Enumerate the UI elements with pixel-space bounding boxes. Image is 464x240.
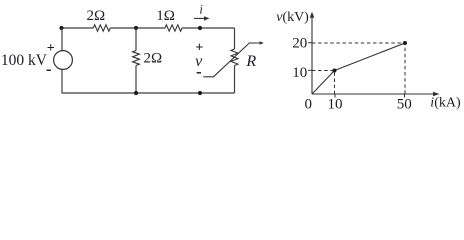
svg-text:50: 50 (397, 96, 412, 112)
node dot top-left (59, 26, 63, 30)
svg-text:10: 10 (292, 65, 307, 81)
wire source bottom lead (61, 69, 63, 93)
wire right branch bottom (234, 66, 236, 94)
resistor R3 2ohm middle zigzag (133, 51, 140, 66)
node dot top-middle (134, 26, 138, 30)
data point 50,20 (403, 41, 407, 45)
resistor R2 1ohm zigzag (165, 25, 182, 31)
wire middle branch bottom (135, 66, 137, 94)
tick x 50 (404, 94, 406, 98)
tick y 10 (308, 69, 312, 71)
node dot bottom-right (198, 91, 202, 95)
data point 10,10 (333, 69, 337, 73)
svg-text:v(kV): v(kV) (276, 10, 309, 25)
varistor arrow (203, 41, 263, 77)
svg-text:100 kV: 100 kV (1, 52, 48, 69)
svg-text:0: 0 (305, 96, 313, 112)
tick y 20 (308, 42, 312, 44)
svg-text:+: + (47, 41, 55, 56)
curve segment 2 (335, 43, 406, 71)
graph x-axis (312, 92, 440, 97)
dashed level 10 (312, 71, 335, 95)
varistor R zigzag (231, 49, 238, 66)
svg-text:2Ω: 2Ω (87, 8, 106, 24)
curve segment 1 (312, 71, 335, 95)
svg-text:i: i (199, 3, 203, 17)
wire top-middle segment (110, 27, 165, 29)
current arrow i (194, 16, 210, 20)
svg-text:-: - (196, 62, 202, 81)
wire right branch top (234, 28, 236, 49)
voltage source V1 circle (54, 51, 73, 70)
svg-text:2Ω: 2Ω (144, 50, 163, 66)
node dot bottom-middle (134, 91, 138, 95)
svg-text:20: 20 (292, 36, 307, 52)
wire top-right segment (182, 27, 235, 29)
resistor R1 2ohm top zigzag (93, 25, 110, 31)
wire middle branch top (135, 28, 137, 51)
tick x 10 (334, 94, 336, 98)
wire bottom (62, 92, 235, 94)
wire source top lead (61, 28, 63, 51)
svg-text:R: R (245, 53, 256, 70)
dashed level 20 (312, 43, 405, 94)
svg-text:1Ω: 1Ω (156, 8, 175, 24)
wire top-left segment (62, 27, 94, 29)
svg-text:i(kA): i(kA) (430, 96, 461, 111)
node dot top-right (198, 26, 202, 30)
svg-text:10: 10 (328, 96, 343, 112)
graph y-axis (310, 12, 315, 94)
